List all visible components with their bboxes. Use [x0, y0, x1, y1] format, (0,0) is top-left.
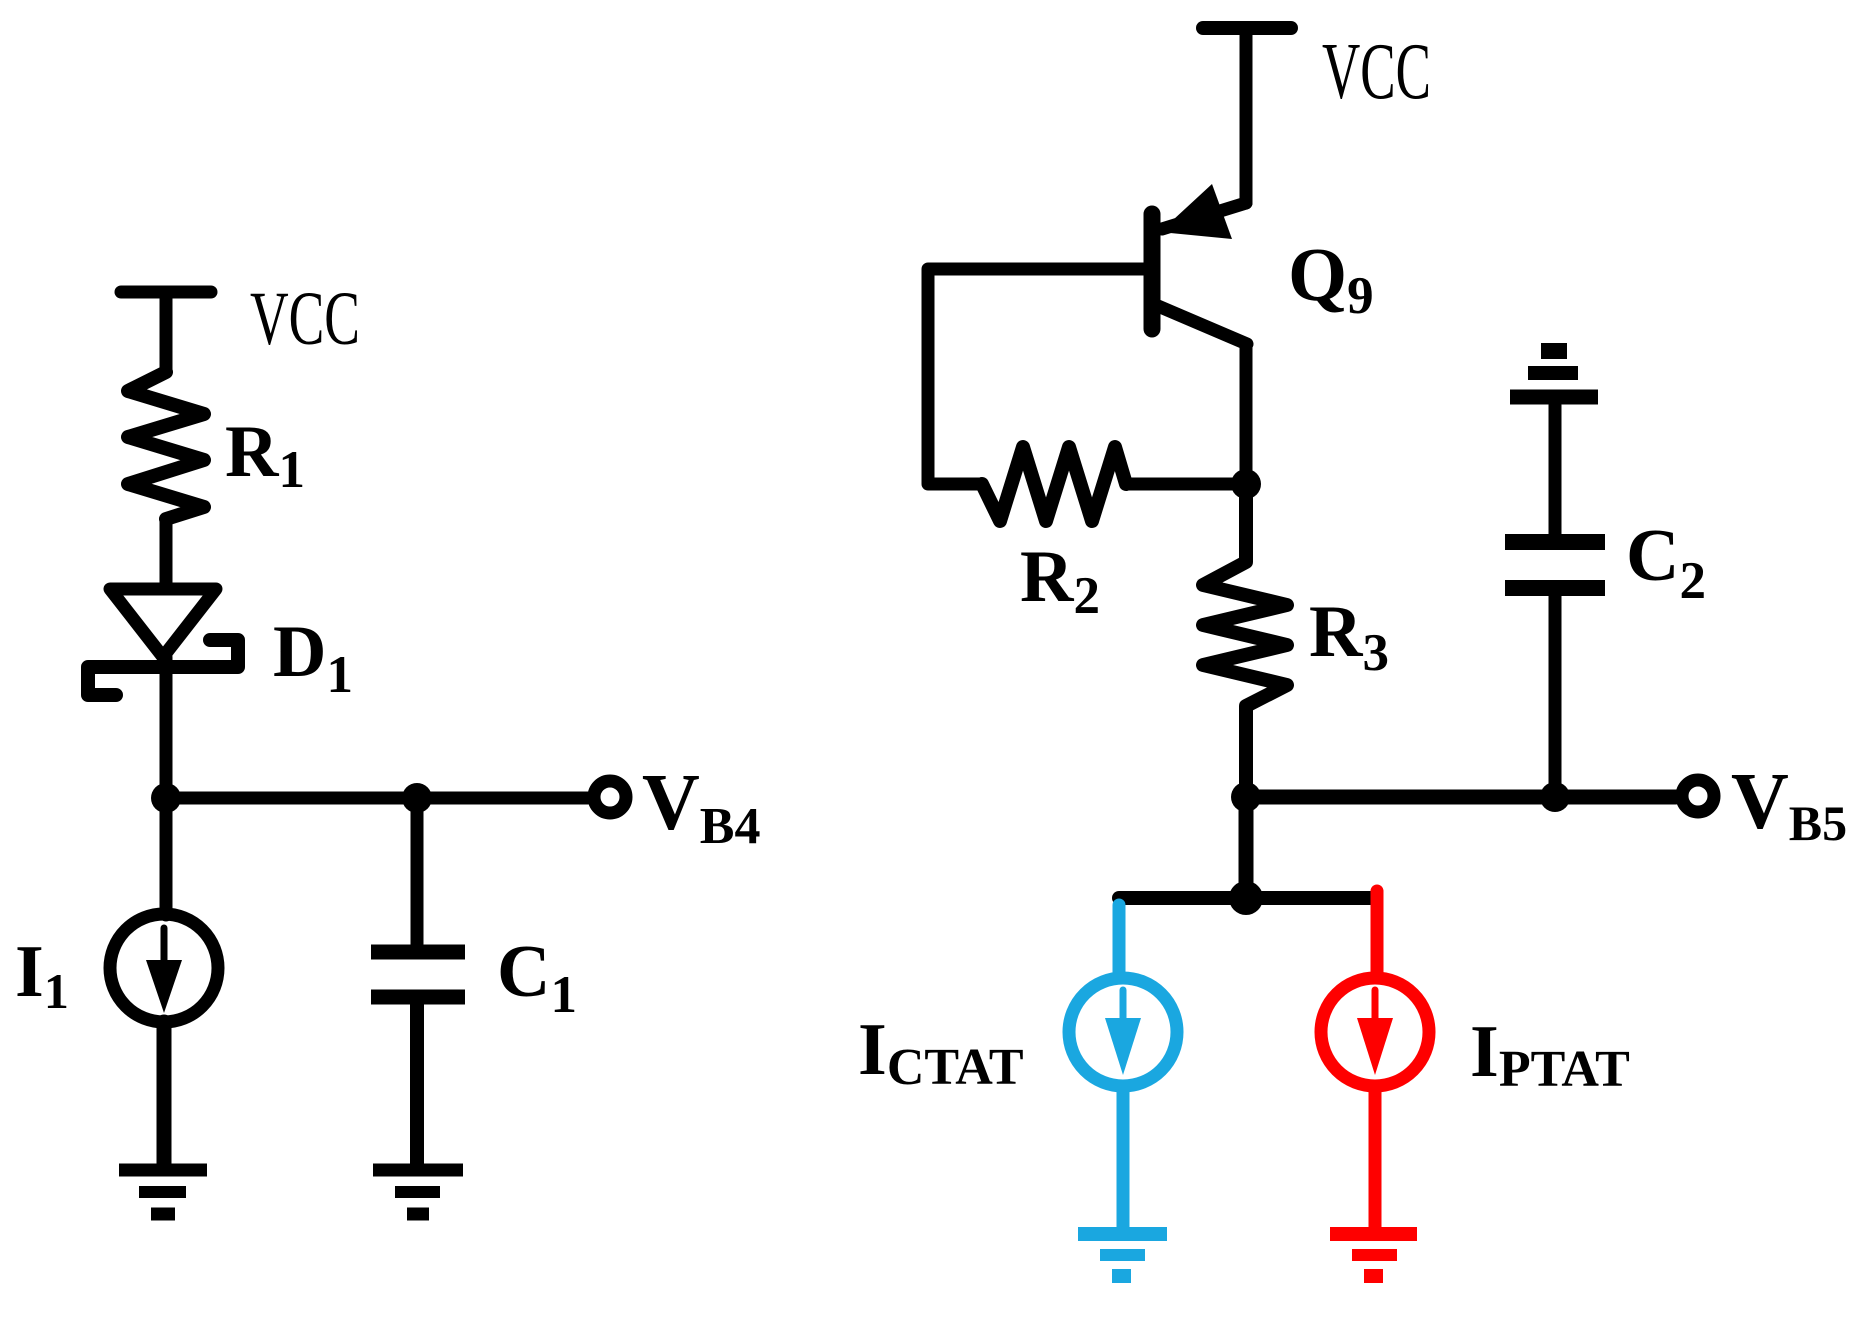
junction dot (rail) — [1229, 881, 1263, 915]
wire Q9 base loop to R2 — [928, 269, 1150, 484]
current source I1 — [110, 914, 218, 1022]
ground (C1) — [373, 1170, 463, 1214]
svg-text:VCC: VCC — [250, 277, 360, 361]
resistor R2 — [982, 447, 1126, 521]
ground (I1) — [119, 1170, 207, 1214]
junction dot (collector/R2/R3) — [1231, 469, 1261, 499]
power VCC symbol (left) — [121, 286, 211, 299]
power VCC symbol (right) — [1203, 21, 1291, 35]
wire C2 to node — [1549, 596, 1562, 797]
inverted ground (C2 top) — [1510, 351, 1598, 397]
svg-text:R1: R1 — [225, 411, 305, 499]
zener diode D1 — [88, 589, 238, 695]
wire IPTAT to ground — [1369, 1086, 1382, 1232]
junction dot (C2 branch) — [1540, 782, 1570, 812]
svg-text:ICTAT: ICTAT — [858, 1009, 1024, 1096]
wire R2 to collector node — [1126, 478, 1247, 491]
wire C2 top to inverted ground — [1549, 405, 1562, 542]
wire VCC bar to Q9 emitter — [1240, 28, 1253, 203]
junction dot (D1/I1 node) — [151, 783, 181, 813]
svg-text:Q9: Q9 — [1288, 233, 1374, 325]
current source ICTAT — [1069, 978, 1177, 1086]
svg-text:IPTAT: IPTAT — [1470, 1011, 1630, 1098]
node wire to terminal VB4 — [166, 792, 588, 805]
terminal VB5 — [1682, 780, 1714, 812]
svg-text:VB4: VB4 — [642, 759, 760, 855]
wire R1 to D1 — [160, 519, 173, 586]
terminal VB4 — [594, 781, 626, 813]
wire node to terminal VB5 — [1246, 790, 1676, 805]
svg-text:R2: R2 — [1020, 536, 1100, 625]
wire rail to ICTAT — [1113, 905, 1126, 978]
wire VCC bar to R1 — [160, 292, 173, 372]
svg-text:VB5: VB5 — [1731, 758, 1847, 851]
junction dot (VB5 node) — [1231, 782, 1261, 812]
current source IPTAT — [1321, 978, 1429, 1086]
capacitor C2 — [1505, 542, 1605, 588]
current sources rail — [1119, 891, 1372, 905]
ground (ICTAT) — [1078, 1234, 1167, 1276]
svg-text:I1: I1 — [15, 931, 69, 1019]
ground (IPTAT) — [1330, 1234, 1417, 1276]
junction dot (C1 branch) — [402, 783, 432, 813]
wire Q9 collector to node — [1240, 344, 1253, 484]
capacitor C1 — [371, 952, 465, 997]
resistor R1 — [128, 372, 204, 519]
svg-text:R3: R3 — [1309, 591, 1389, 682]
svg-text:D1: D1 — [273, 611, 353, 704]
wire node to I1 — [160, 798, 173, 915]
wire node to C1 — [411, 798, 424, 944]
svg-text:C1: C1 — [497, 931, 577, 1024]
svg-text:C2: C2 — [1626, 515, 1706, 610]
wire I1 to ground — [157, 1022, 172, 1168]
svg-text:VCC: VCC — [1322, 28, 1431, 116]
wire rail to IPTAT — [1371, 891, 1384, 978]
wire C1 to ground — [410, 997, 424, 1168]
wire VB5 node to rail — [1239, 797, 1254, 898]
wire ICTAT to ground — [1117, 1086, 1130, 1232]
transistor Q9 — [1152, 184, 1247, 344]
wire D1 to node — [160, 657, 173, 798]
resistor R3 — [1203, 484, 1287, 795]
